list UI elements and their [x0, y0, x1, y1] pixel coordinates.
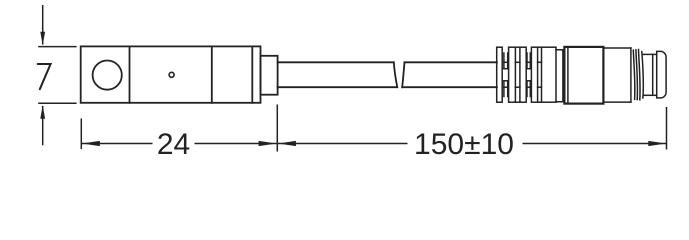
thread barrel bottom [603, 101, 631, 103]
arrowhead right (dim 150 right) [648, 141, 666, 146]
svg-text:150±10: 150±10 [414, 128, 514, 161]
arrowhead left (dim 150 left) [278, 141, 296, 146]
connector nut [564, 47, 603, 104]
dim text 7 (stroked CAD style) [38, 64, 51, 89]
cable break line 1 [394, 62, 398, 87]
dim 150: right extension line [666, 107, 668, 150]
arrowhead up (dim 7 bottom) [40, 105, 45, 119]
dim 24: dimension line left part [82, 143, 153, 145]
boot neck cylinder [556, 50, 563, 102]
strain relief valley 2 [527, 53, 530, 97]
cable segment 1 top [278, 61, 394, 63]
dim 7: bottom arrow leader [42, 106, 44, 145]
dim 7: top extension line [38, 46, 76, 48]
strain relief fin block 2 [509, 47, 527, 102]
body divider 3 [251, 46, 253, 102]
cable segment 2 bottom [402, 86, 497, 88]
thread barrel top [603, 47, 631, 49]
thread barrel end wall [630, 48, 632, 102]
cable gland [261, 56, 278, 95]
dim 7: bottom extension line [38, 102, 76, 104]
cable segment 1 bottom [278, 86, 397, 88]
body divider 2 [211, 46, 213, 102]
dim 7: top arrow leader [42, 5, 44, 45]
thread line 3 [639, 50, 641, 100]
cable segment 2 top [405, 61, 497, 63]
body divider 1 [129, 46, 131, 102]
tip collar end wall [652, 54, 654, 95]
dim 24: dimension line right part [195, 143, 277, 145]
dim 150: dimension line right part [523, 143, 667, 145]
thread end ring [642, 52, 643, 99]
dim 24 / 150 shared extension line [276, 105, 278, 152]
strain relief fin 1 [497, 47, 503, 102]
svg-text:24: 24 [157, 128, 190, 161]
arrowhead right (dim 24 right) [259, 141, 277, 146]
dim 150: dimension line left part [278, 143, 408, 145]
LED indicator dot [169, 72, 174, 77]
tip collar bottom [643, 94, 656, 96]
arrowhead left (dim 24 left) [82, 141, 100, 146]
cable break line 2 [402, 62, 404, 87]
thread line 1 [633, 50, 635, 99]
dim 24: left extension line [80, 119, 82, 150]
arrowhead down (dim 7 top) [40, 32, 45, 46]
thread line 2 [636, 50, 638, 100]
tip collar top [643, 53, 656, 55]
sensing face circle [93, 61, 122, 90]
sensor body outline [81, 46, 261, 102]
connector tip body [657, 51, 666, 98]
connector nut inner seam [567, 47, 569, 104]
strain relief fin block 3 with boot tail [531, 47, 556, 102]
strain relief valley 1 [504, 53, 508, 97]
